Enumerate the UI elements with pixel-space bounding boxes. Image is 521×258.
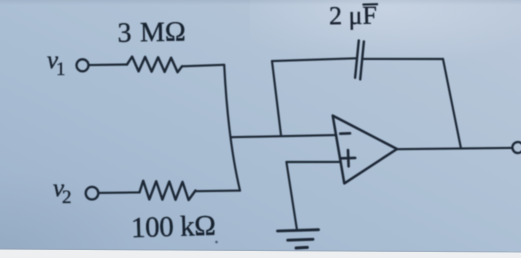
wire v1 to R1 <box>89 63 127 66</box>
wire feedback top right <box>362 58 443 60</box>
op-amp U1 <box>333 116 397 184</box>
wire output <box>397 148 512 149</box>
terminal output <box>512 142 521 153</box>
capacitor C1 right plate <box>360 41 364 79</box>
svg-text:2: 2 <box>62 187 72 208</box>
svg-text:MΩ: MΩ <box>140 17 186 49</box>
svg-text:1: 1 <box>56 59 66 80</box>
wire feedback left vertical <box>272 61 281 135</box>
wire feedback top left <box>272 58 356 61</box>
wire node A vertical (junction of R1, R2, inverting input) <box>224 65 240 191</box>
ground <box>278 230 319 231</box>
stray overline on F <box>363 3 379 6</box>
resistor R2 <box>140 181 196 200</box>
svg-text:3: 3 <box>117 18 132 49</box>
resistor R1 <box>127 57 182 73</box>
wire ground stem <box>286 162 297 230</box>
terminal v2 <box>86 187 99 200</box>
wire v2 to R2 <box>99 191 140 194</box>
op-amp inverting pin mark <box>340 132 350 135</box>
white page-edge strip at bottom <box>0 250 521 258</box>
terminal v1 <box>77 59 89 71</box>
op-amp non-inverting pin mark <box>341 157 355 160</box>
wire feedback right down to output <box>443 59 461 149</box>
svg-text:100 kΩ: 100 kΩ <box>131 210 216 244</box>
wire node A to inverting input <box>231 135 336 137</box>
wire R1 to node A <box>182 65 224 67</box>
wire non-inverting input <box>286 161 340 163</box>
speck <box>215 241 218 244</box>
capacitor C1 left plate <box>355 40 359 77</box>
wire R2 to node A <box>196 190 241 193</box>
